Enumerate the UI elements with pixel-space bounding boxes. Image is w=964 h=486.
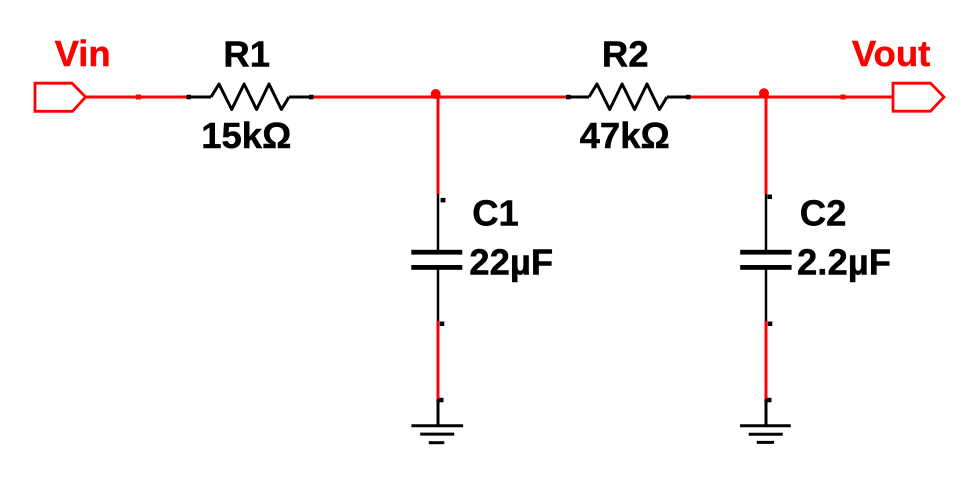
svg-text:2.2µF: 2.2µF bbox=[797, 242, 891, 283]
svg-text:R2: R2 bbox=[602, 33, 649, 74]
svg-text:22µF: 22µF bbox=[469, 242, 553, 283]
svg-text:C1: C1 bbox=[472, 193, 519, 234]
svg-text:Vin: Vin bbox=[55, 33, 111, 74]
svg-text:C2: C2 bbox=[800, 193, 847, 234]
svg-text:Vout: Vout bbox=[852, 33, 930, 74]
svg-text:47kΩ: 47kΩ bbox=[580, 115, 670, 156]
svg-text:15kΩ: 15kΩ bbox=[201, 115, 291, 156]
svg-text:R1: R1 bbox=[223, 33, 270, 74]
